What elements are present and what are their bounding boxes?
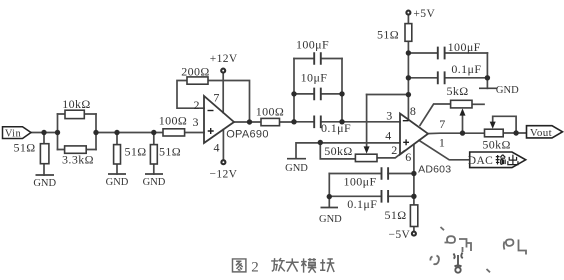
svg-text:GND: GND: [143, 177, 166, 188]
wire cap row 0.1uF: [294, 121, 342, 123]
capacitor 100uF coupling: [314, 52, 321, 65]
ground bars: [36, 88, 498, 207]
terminal +5V: [406, 11, 410, 15]
arrow 50k gain wiper (down): [364, 146, 370, 153]
wire 50k gain pot left lead elbow: [320, 143, 355, 159]
wire cap row 100uF: [294, 58, 342, 60]
ground bar AD603 pin4: [287, 158, 306, 160]
svg-text:10kΩ: 10kΩ: [62, 97, 91, 111]
svg-text:4: 4: [214, 140, 220, 154]
wire lower caps left rail: [328, 174, 330, 207]
capacitor 10uF coupling: [314, 88, 321, 101]
wire main input line: [96, 132, 163, 134]
svg-text:51Ω: 51Ω: [13, 141, 35, 155]
resistor 100R1: [163, 129, 185, 136]
ground bar under 51R1: [36, 174, 55, 176]
wire parallel left riser: [57, 114, 59, 150]
svg-text:3: 3: [386, 109, 392, 123]
ground bar lower caps: [321, 207, 339, 209]
svg-text:3: 3: [193, 115, 199, 129]
ground bar +5v caps: [479, 87, 497, 89]
wire +5V terminal to 51R4: [407, 15, 409, 23]
svg-text:2: 2: [251, 259, 259, 275]
faint print-through artifacts bottom right: [430, 227, 526, 272]
input polarity marks AD603: [403, 121, 409, 146]
wire 51R1 branch: [43, 133, 45, 176]
wire AD603 pin5 to 5k: [420, 104, 451, 125]
input polarity marks OPA690: [208, 111, 214, 135]
wire +5v caps right rail to GND: [486, 53, 488, 88]
wire top branch 10k: [58, 113, 97, 115]
resistor 51R2: [114, 145, 121, 164]
svg-text:10μF: 10μF: [301, 70, 328, 84]
wire 51R3 branch: [153, 133, 155, 175]
svg-text:4: 4: [385, 129, 391, 143]
wiper arrowheads: [364, 108, 496, 153]
svg-text:6: 6: [405, 150, 411, 164]
svg-text:51Ω: 51Ω: [124, 145, 146, 159]
capacitor plates: [314, 47, 444, 203]
hanzi FANG of caption: [271, 258, 285, 271]
svg-text:100μF: 100μF: [343, 174, 376, 188]
svg-text:−12V: −12V: [209, 169, 237, 181]
label Vin tag: [3, 127, 32, 140]
wire OPA690 pin2 feedback loop: [177, 81, 250, 123]
ground bar under 51R3: [145, 173, 163, 175]
svg-text:7: 7: [213, 91, 219, 105]
caption figure number: [251, 259, 259, 275]
resistor 10kR: [65, 110, 84, 118]
wire +12V to pin7: [222, 74, 224, 113]
svg-text:100μF: 100μF: [448, 40, 481, 54]
svg-text:51Ω: 51Ω: [384, 208, 406, 222]
faint symbol glyph bottom: [454, 253, 463, 273]
svg-text:0.1μF: 0.1μF: [451, 62, 481, 76]
wire 100R1 to opamp pin3: [185, 132, 204, 134]
wire AD603 pin4 to GND: [296, 143, 400, 158]
hanzi CHU of DAC tag: [508, 155, 518, 165]
hanzi TU of caption: [232, 259, 245, 272]
wire +5v cap row2: [408, 77, 487, 79]
wire bottom branch 3.3k: [58, 149, 97, 151]
potentiometer 50k gain body: [355, 154, 377, 161]
resistor 51R1: [40, 144, 49, 164]
capacitor 0.1uF +5v decoupling: [438, 71, 445, 84]
label DAC output tag: [468, 152, 526, 168]
arrow 50k out wiper (down): [490, 122, 496, 129]
wire 50k gain pot wiper vertical: [366, 95, 368, 147]
ground bar under 51R2: [108, 173, 126, 175]
svg-text:51Ω: 51Ω: [377, 28, 399, 42]
svg-text:AD603: AD603: [418, 164, 451, 176]
svg-text:100Ω: 100Ω: [159, 114, 188, 128]
wire Vin lead: [31, 132, 58, 134]
svg-text:3.3kΩ: 3.3kΩ: [62, 153, 94, 167]
wire 50k out wiper loop: [493, 116, 516, 133]
wire +5v cap row1: [408, 52, 487, 54]
wire wiper elbow to +5V rail: [367, 94, 409, 96]
svg-text:GND: GND: [319, 214, 342, 225]
wire to AD603 pin3: [342, 121, 400, 123]
svg-text:+12V: +12V: [210, 53, 238, 65]
potentiometer 50k out body: [485, 129, 504, 137]
svg-text:0.1μF: 0.1μF: [347, 197, 377, 211]
svg-text:2: 2: [194, 98, 200, 112]
wire 5k wiper vertical: [462, 115, 464, 134]
svg-text:5kΩ: 5kΩ: [446, 84, 468, 98]
svg-text:GND: GND: [106, 177, 129, 188]
wire AD603 output pin7 line: [428, 132, 527, 135]
hanzi SHU of DAC tag: [496, 155, 506, 165]
resistor 51R3: [150, 145, 157, 164]
svg-text:Vout: Vout: [530, 127, 552, 139]
resistor 3.3kR: [65, 146, 87, 153]
wire 51R2 branch: [116, 133, 118, 175]
resistor 100R2: [261, 118, 280, 125]
wire 5k right stub: [472, 103, 484, 105]
svg-text:200Ω: 200Ω: [181, 65, 210, 79]
svg-text:DAC: DAC: [468, 155, 493, 167]
wire cap row 10uF: [294, 93, 342, 95]
svg-text:0.1μF: 0.1μF: [321, 121, 351, 135]
op-amp AD603 triangle: [400, 114, 428, 155]
svg-text:7: 7: [439, 117, 445, 131]
capacitor 0.1uF coupling: [314, 116, 321, 129]
svg-text:GND: GND: [33, 178, 56, 189]
svg-text:100Ω: 100Ω: [256, 105, 285, 119]
capacitor 100uF -5v decoupling: [382, 167, 389, 180]
svg-text:GND: GND: [496, 85, 519, 96]
svg-text:50kΩ: 50kΩ: [482, 138, 511, 152]
power terminals: [221, 11, 416, 236]
wire lower cap row 100uF: [329, 173, 414, 175]
wire AD603 pin1 to DAC tag: [419, 140, 470, 159]
svg-text:+5V: +5V: [413, 8, 435, 20]
wire coupling cap right rail: [341, 59, 343, 122]
svg-text:2: 2: [391, 143, 397, 157]
label Vout tag: [527, 126, 563, 139]
svg-text:OPA690: OPA690: [226, 129, 269, 141]
capacitor 0.1uF -5v decoupling: [382, 190, 389, 203]
wire coupling cap left rail: [293, 59, 295, 122]
hanzi DA of caption: [286, 258, 299, 271]
svg-text:1: 1: [439, 135, 445, 149]
wire AD603 pin2 to 50k gain pot: [377, 151, 404, 158]
resistor 51R5: [410, 205, 417, 227]
resistor 51R4: [405, 24, 412, 42]
terminal +12V: [221, 69, 225, 73]
capacitor 100uF +5v decoupling: [438, 47, 445, 60]
svg-text:8: 8: [410, 104, 416, 118]
svg-text:−5V: −5V: [389, 229, 411, 241]
svg-text:GND: GND: [285, 163, 308, 174]
hanzi KUAI of caption: [320, 259, 334, 272]
wire -12V pin4: [222, 130, 224, 160]
wire opamp output: [234, 121, 294, 123]
resistor boxes: [40, 24, 503, 227]
hanzi MO of caption: [301, 258, 316, 273]
terminal -12V: [221, 160, 225, 164]
potentiometer 5k body: [451, 100, 472, 108]
svg-text:Vin: Vin: [5, 128, 22, 139]
wire lower cap row 0.1uF: [329, 195, 414, 197]
svg-text:51Ω: 51Ω: [159, 145, 181, 159]
svg-text:100μF: 100μF: [296, 37, 329, 51]
arrow 5k wiper (up): [460, 108, 466, 115]
resistor 200R: [187, 77, 208, 84]
wire +5V rail to pin8: [407, 41, 409, 119]
wire parallel right riser: [95, 114, 97, 150]
terminal -5V: [412, 232, 416, 236]
svg-text:50kΩ: 50kΩ: [324, 144, 353, 158]
op-amp OPA690 triangle: [204, 96, 234, 143]
wire AD603 pin6 down: [413, 144, 415, 231]
